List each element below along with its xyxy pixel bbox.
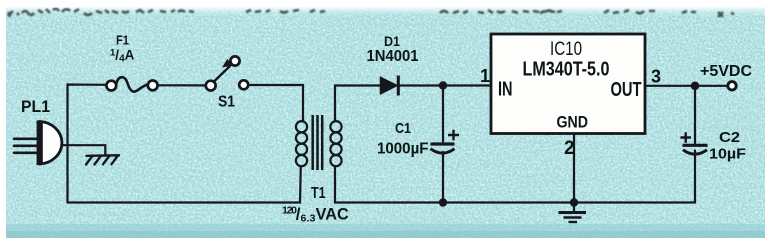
prong 3 [14,152,38,155]
wire: bottom left rail [68,166,301,203]
switch arm [214,66,231,82]
svg-text:1N4001: 1N4001 [367,48,419,65]
svg-text:LM340T-5.0: LM340T-5.0 [523,58,610,81]
plug body [40,122,62,165]
core laminations [313,115,323,170]
wire: plug to chassis ground stub [63,145,105,155]
svg-text:3: 3 [651,67,661,87]
svg-text:IN: IN [498,79,513,101]
wire: C2 branch down [694,86,696,203]
transformer T1 [296,115,342,170]
white top margin fading into page [0,0,775,17]
svg-text:F1: F1 [116,33,129,48]
wire: transformer secondary top to diode [335,86,381,122]
capacitor C2 [681,132,708,154]
wire: diode to IC IN pin [400,84,491,86]
diode D1 [381,76,399,96]
plus sign [681,132,692,143]
prong 2 [14,145,38,148]
svg-text:1: 1 [480,66,490,86]
plug PL1 [14,121,62,166]
svg-text:C1: C1 [395,120,411,137]
wire: IC GND pin down [573,134,575,203]
svg-text:GND: GND [557,113,589,132]
plus sign [448,130,459,141]
svg-text:1000µF: 1000µF [377,141,429,158]
svg-text:2: 2 [564,138,575,159]
wire: IC OUT to +5VDC terminal [645,85,727,87]
switch S1 [206,56,248,90]
wire: switch to transformer primary top corner [249,85,304,121]
svg-text:C2: C2 [719,129,740,146]
fuse F1 [106,77,157,91]
ground (earth) [559,203,587,223]
secondary winding [330,121,341,166]
wire: bottom right rail, secondary bottom to C2 [335,166,695,203]
svg-text:+5VDC: +5VDC [700,63,752,80]
svg-text:T1: T1 [311,185,326,202]
primary winding [296,121,307,166]
node: diode/C1 junction [439,81,447,89]
chassis ground [86,155,119,164]
node: OUT/C2 junction [691,82,700,91]
svg-text:S1: S1 [218,94,235,111]
prong 1 [14,138,38,141]
svg-text:D1: D1 [384,33,400,49]
capacitor C1 [431,130,460,153]
node: C1 ground junction [439,198,447,206]
op-amp IC10 regulator box [491,34,645,134]
wire: top rail left corner to fuse [68,85,107,203]
wire: C1 branch down [442,86,444,203]
svg-text:PL1: PL1 [21,97,50,116]
bleed-through print noise along top edge [8,9,734,17]
node: GND rail junction [570,198,578,206]
+5VDC terminal [728,82,736,90]
svg-text:OUT: OUT [611,79,642,101]
svg-text:10µF: 10µF [709,146,746,163]
wire: fuse to switch [158,84,205,86]
